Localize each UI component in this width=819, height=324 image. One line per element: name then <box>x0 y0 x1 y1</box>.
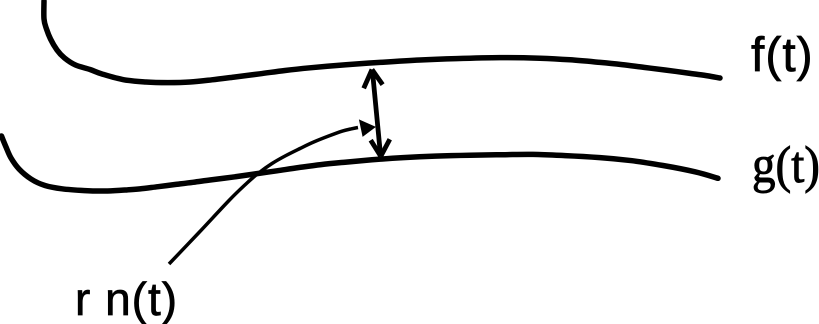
curve g(t) <box>2 136 719 191</box>
curve f(t) <box>44 1 720 83</box>
svg-text:r n(t): r n(t) <box>75 273 178 324</box>
svg-text:g(t): g(t) <box>752 137 819 194</box>
double-headed arrow bottom head <box>371 139 390 156</box>
leader arrowhead <box>359 119 376 136</box>
svg-text:f(t): f(t) <box>751 29 814 82</box>
leader curve from r n(t) <box>169 128 358 265</box>
double-headed arrow shaft <box>372 71 380 157</box>
double-headed arrow top head <box>364 70 383 89</box>
